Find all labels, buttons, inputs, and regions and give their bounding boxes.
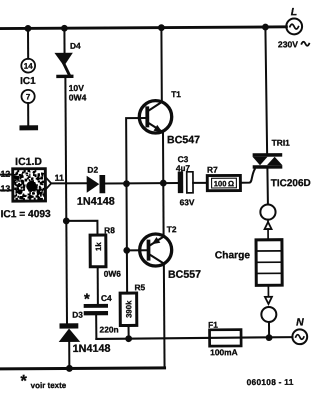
svg-text:T2: T2 (167, 224, 177, 234)
wire neutral line (96, 337, 292, 339)
node junction on rail at T1 collector (158, 24, 165, 31)
wire to R8 (66, 221, 97, 235)
gate output wedge pin 11 (45, 177, 51, 190)
wire IC1 pin7 to ground (27, 103, 29, 125)
diode D3 (59, 323, 81, 368)
svg-text:1k: 1k (94, 242, 103, 251)
svg-text:N: N (296, 316, 304, 328)
terminal L (mains live) (286, 6, 302, 34)
svg-text:TRI1: TRI1 (272, 138, 291, 148)
gate IC1.D (13, 169, 46, 201)
svg-text:BC547: BC547 (167, 134, 200, 146)
svg-text:230V: 230V (278, 39, 298, 49)
svg-text:060108 - 11: 060108 - 11 (247, 377, 294, 387)
pin 12 wire (0, 174, 13, 176)
wire R7 to triac gate (240, 169, 254, 182)
resistor R5 (120, 293, 137, 325)
wire base rail (126, 118, 146, 293)
wire T1 emitter down (162, 132, 164, 183)
svg-text:7: 7 (26, 92, 31, 101)
svg-text:IC1: IC1 (20, 76, 36, 87)
svg-text:R7: R7 (207, 165, 218, 175)
svg-text:*: * (84, 291, 90, 308)
svg-text:*: * (20, 372, 27, 390)
svg-text:13: 13 (0, 183, 10, 193)
svg-text:100mA: 100mA (210, 347, 238, 357)
wire IC1 pin14 drop (27, 28, 29, 58)
svg-text:T1: T1 (171, 89, 181, 99)
svg-text:IC1.D: IC1.D (15, 156, 42, 168)
wire T1 collector to rail (160, 28, 162, 102)
capacitor C4 (84, 304, 109, 339)
svg-text:390k: 390k (124, 300, 133, 318)
wire C3 to R7 (193, 182, 207, 184)
svg-text:100 Ω: 100 Ω (214, 179, 234, 188)
svg-text:BC557: BC557 (168, 269, 201, 281)
wire T2 base (127, 249, 147, 251)
svg-text:F1: F1 (208, 320, 218, 330)
node D2/base rail (123, 180, 130, 187)
node junction on rail at TRI1 (262, 24, 269, 31)
svg-text:D2: D2 (87, 165, 98, 175)
connector circle lower (261, 307, 276, 322)
transistor T2 (140, 234, 172, 266)
wire pin11 to D2 (51, 182, 86, 184)
svg-text:1N4148: 1N4148 (73, 343, 111, 355)
resistor R8 (90, 235, 106, 267)
svg-text:D3: D3 (72, 310, 83, 320)
svg-text:0W4: 0W4 (69, 92, 87, 102)
node bottom rail D3 (66, 365, 73, 372)
ground (19, 125, 38, 130)
node T2 base (123, 247, 130, 254)
wire triac MT1 down (266, 169, 269, 205)
arrow up (265, 220, 272, 240)
zener diode D4 (54, 28, 73, 78)
wire rail to triac (265, 27, 267, 153)
node emitters (160, 180, 167, 187)
svg-text:0W6: 0W6 (104, 269, 122, 279)
svg-text:12: 12 (0, 169, 10, 179)
wire T2 emitter up (162, 183, 164, 236)
IC1 pin 7 circle (21, 90, 34, 103)
wire top supply rail (0, 27, 286, 29)
triac TRI1 (253, 153, 283, 169)
fuse F1 (210, 330, 242, 346)
svg-text:63V: 63V (180, 197, 195, 207)
wire bottom rail (1, 368, 165, 369)
node R5 neutral (125, 335, 132, 342)
pin 13 wire (0, 189, 13, 191)
wire timing node vertical (D4 to D3) (65, 78, 67, 323)
terminal N (mains neutral) (292, 316, 307, 344)
connector circle upper (260, 204, 275, 219)
svg-text:11: 11 (55, 173, 64, 183)
svg-text:4µ7: 4µ7 (176, 163, 191, 173)
transistor T1 (139, 101, 172, 134)
node junction on rail at IC1 pin14 (25, 25, 32, 32)
wire D2 to emitters node (105, 182, 178, 185)
diode D2 (87, 175, 106, 193)
arrow down (265, 285, 272, 304)
svg-text:L: L (291, 6, 297, 18)
capacitor C3 (178, 171, 193, 193)
svg-text:220n: 220n (100, 324, 119, 334)
svg-text:TIC206D: TIC206D (271, 178, 311, 189)
wire R8 to C4 (97, 267, 99, 304)
label 230V ~ (278, 39, 309, 49)
svg-text:D4: D4 (70, 41, 81, 51)
svg-text:14: 14 (24, 62, 34, 71)
node timing/R8 branch (63, 218, 70, 225)
wire connector to neutral (268, 322, 270, 338)
svg-text:IC1 = 4093: IC1 = 4093 (1, 209, 52, 220)
svg-text:R5: R5 (134, 282, 145, 292)
load Charge box (256, 240, 282, 286)
svg-text:R8: R8 (104, 225, 115, 235)
node neutral (266, 334, 273, 341)
node junction on rail at D4 (61, 25, 68, 32)
svg-text:1N4148: 1N4148 (77, 196, 115, 208)
IC1 pin 14 circle (21, 59, 35, 73)
wire T2 collector to rail (163, 263, 166, 367)
resistor R7 (207, 175, 240, 190)
svg-text:C4: C4 (101, 293, 112, 303)
svg-text:voir texte: voir texte (31, 381, 67, 390)
wire R5 to neutral (128, 325, 130, 338)
svg-text:Charge: Charge (215, 250, 250, 261)
